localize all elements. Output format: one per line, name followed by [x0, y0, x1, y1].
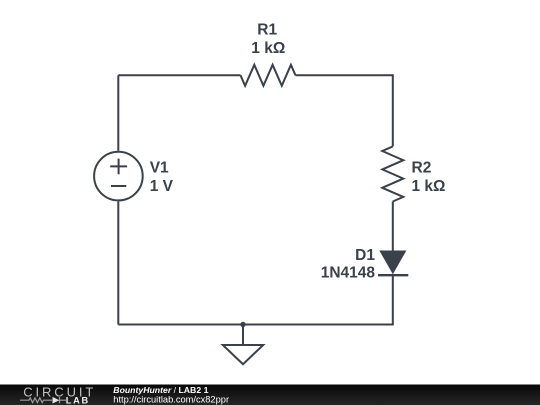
voltage source V1: [94, 152, 143, 201]
svg-text:R1: R1: [257, 22, 277, 39]
wire right vertical down to R2: [392, 74, 394, 146]
wire left vertical V1 bottom lead: [117, 201, 119, 324]
svg-text:1N4148: 1N4148: [321, 265, 376, 282]
svg-text:BountyHunter / LAB2 1: BountyHunter / LAB2 1: [113, 385, 208, 395]
D1 cathode bar: [378, 274, 408, 276]
ground: [223, 325, 263, 365]
wire R2 to diode D1: [392, 202, 394, 252]
ground node junction dot: [240, 322, 245, 327]
svg-text:V1: V1: [150, 160, 169, 177]
svg-text:1 kΩ: 1 kΩ: [251, 40, 285, 57]
svg-text:D1: D1: [355, 247, 375, 264]
V1 plus sign: [110, 165, 127, 167]
svg-text:1 V: 1 V: [150, 178, 174, 195]
wire top segment V1 to R1: [118, 74, 240, 76]
svg-text:R2: R2: [412, 160, 432, 177]
wire top segment R1 to top-right corner: [296, 74, 393, 76]
svg-text:LAB: LAB: [66, 396, 90, 405]
wire bottom segment: [118, 324, 393, 326]
svg-text:1 kΩ: 1 kΩ: [412, 178, 446, 195]
CircuitLab logo: wire with resistor and diode: [20, 397, 66, 403]
wire D1 cathode to bottom-right corner: [392, 275, 394, 325]
V1 minus sign: [111, 185, 126, 187]
wire left vertical V1 top lead: [117, 75, 119, 151]
resistor R1: [241, 65, 296, 86]
svg-text:http://circuitlab.com/cx82ppr: http://circuitlab.com/cx82ppr: [113, 394, 229, 404]
diode D1: [378, 251, 408, 276]
resistor R2: [382, 146, 403, 201]
